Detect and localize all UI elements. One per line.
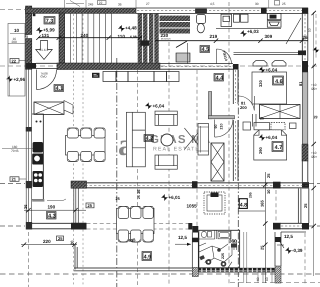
svg-text:21: 21 — [12, 177, 17, 182]
svg-text:+6,04: +6,04 — [153, 103, 165, 108]
svg-text:25: 25 — [116, 197, 120, 201]
svg-text:10: 10 — [265, 277, 269, 281]
svg-text:309: 309 — [265, 34, 273, 39]
svg-text:/20+: /20+ — [311, 155, 317, 159]
svg-text:+6,01: +6,01 — [169, 195, 181, 200]
svg-text:25: 25 — [266, 173, 271, 178]
svg-text:230: 230 — [161, 33, 169, 38]
svg-text:10: 10 — [266, 189, 271, 194]
svg-text:200: 200 — [12, 40, 18, 44]
svg-text:/20+: /20+ — [311, 87, 317, 91]
svg-text:-0,39: -0,39 — [292, 248, 303, 253]
svg-text:4.1: 4.1 — [56, 86, 64, 92]
svg-text:4.3: 4.3 — [48, 214, 56, 220]
svg-text:25: 25 — [260, 245, 265, 250]
svg-text:60: 60 — [256, 277, 260, 281]
svg-text:10: 10 — [14, 28, 20, 33]
svg-text:20: 20 — [70, 240, 75, 245]
svg-text:21: 21 — [314, 116, 318, 120]
svg-text:4.4: 4.4 — [216, 76, 224, 82]
svg-text:+6,04: +6,04 — [266, 135, 278, 140]
svg-text:4.2: 4.2 — [146, 136, 154, 142]
svg-text:+6,04: +6,04 — [266, 67, 278, 72]
svg-text:+5,99: +5,99 — [43, 28, 55, 33]
svg-text:25: 25 — [260, 117, 264, 121]
svg-text:320: 320 — [258, 80, 263, 87]
svg-text:10: 10 — [308, 28, 312, 32]
svg-text:36: 36 — [118, 3, 122, 7]
svg-text:25: 25 — [58, 236, 63, 241]
svg-text:4.6: 4.6 — [275, 79, 283, 85]
svg-text:4.5: 4.5 — [202, 47, 210, 53]
svg-text:12,5: 12,5 — [178, 235, 187, 240]
svg-text:1055: 1055 — [187, 204, 198, 209]
svg-text:220: 220 — [43, 239, 51, 244]
svg-text:4,5: 4,5 — [210, 2, 215, 6]
svg-text:25: 25 — [303, 203, 308, 208]
svg-text:REAL ESTATE: REAL ESTATE — [153, 146, 200, 152]
svg-text:25: 25 — [282, 2, 286, 6]
svg-text:22: 22 — [12, 58, 17, 63]
svg-text:110: 110 — [118, 34, 126, 39]
svg-text:36: 36 — [136, 189, 141, 194]
svg-text:12,5: 12,5 — [284, 234, 293, 239]
svg-text:70+B: 70+B — [11, 149, 19, 153]
svg-text:240: 240 — [81, 33, 89, 38]
svg-text:26: 26 — [303, 35, 309, 40]
svg-text:295: 295 — [249, 192, 253, 198]
svg-text:360: 360 — [229, 238, 237, 243]
svg-text:GVD: GVD — [41, 75, 47, 79]
svg-text:4.7: 4.7 — [275, 145, 283, 151]
svg-text:249: 249 — [88, 3, 94, 7]
svg-text:27: 27 — [146, 2, 150, 6]
svg-text:4.8: 4.8 — [240, 202, 247, 208]
svg-text:165: 165 — [260, 200, 265, 207]
svg-text:30: 30 — [255, 2, 259, 6]
svg-text:25: 25 — [137, 195, 141, 199]
svg-text:25: 25 — [88, 203, 93, 208]
svg-text:S1 4.3: S1 4.3 — [39, 48, 48, 52]
svg-text:7.3: 7.3 — [46, 18, 54, 24]
svg-text:190: 190 — [48, 205, 56, 210]
svg-text:+6,03: +6,03 — [247, 29, 259, 34]
svg-text:4.9: 4.9 — [144, 254, 152, 260]
svg-text:+2,96: +2,96 — [14, 77, 26, 82]
svg-text:25: 25 — [24, 33, 29, 38]
svg-text:05 CIGLA: 05 CIGLA — [161, 38, 171, 41]
svg-text:225: 225 — [221, 253, 225, 259]
svg-text:131: 131 — [42, 33, 50, 38]
svg-text:290: 290 — [258, 147, 263, 154]
svg-text:81: 81 — [298, 81, 303, 86]
svg-text:90: 90 — [214, 125, 218, 129]
svg-text:22: 22 — [99, 1, 103, 5]
svg-text:36: 36 — [23, 204, 28, 209]
svg-text:210: 210 — [220, 124, 224, 130]
svg-text:200: 200 — [240, 105, 247, 110]
svg-text:6,08: 6,08 — [130, 35, 137, 39]
svg-text:219: 219 — [210, 34, 218, 39]
svg-text:+4,48: +4,48 — [125, 26, 137, 31]
